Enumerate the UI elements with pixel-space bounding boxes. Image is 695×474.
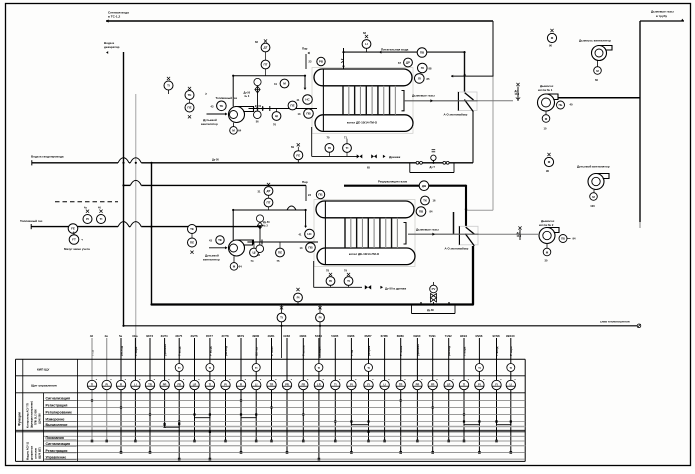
svg-text:Дымовые газы: Дымовые газы (412, 94, 435, 98)
svg-text:А-О экономайзер: А-О экономайзер (444, 113, 468, 117)
svg-text:ТI: ТI (347, 279, 350, 283)
svg-text:ТК: ТК (423, 199, 427, 203)
svg-text:Управление: Управление (46, 456, 67, 460)
svg-text:ПI: ПI (329, 279, 332, 283)
svg-text:ТЕ: ТЕ (219, 104, 223, 108)
svg-text:15-0: 15-0 (517, 236, 522, 238)
svg-text:32/73: 32/73 (146, 334, 153, 338)
svg-text:Контроллер АСУ ТП: Контроллер АСУ ТП (27, 403, 30, 428)
svg-text:ПБ: ПБ (559, 103, 563, 107)
svg-text:котел ДЕ-10/14-ГМ-О: котел ДЕ-10/14-ГМ-О (347, 121, 378, 125)
svg-text:ТЕ: ТЕ (188, 93, 192, 97)
svg-text:ДР: ДР (406, 61, 410, 65)
svg-text:Щит управления: Щит управления (31, 384, 57, 388)
svg-text:FI: FI (495, 382, 498, 386)
svg-text:FT: FT (72, 238, 76, 242)
svg-text:ТI: ТI (334, 382, 337, 386)
svg-text:Ду-50 в дренаж: Ду-50 в дренаж (385, 286, 406, 290)
svg-text:котла № 1: котла № 1 (538, 88, 553, 92)
svg-text:FI: FI (120, 382, 123, 386)
svg-text:ТI: ТI (178, 366, 181, 370)
svg-text:90: 90 (549, 44, 552, 48)
svg-text:Регистрация: Регистрация (46, 403, 68, 407)
svg-text:PI: PI (478, 382, 481, 386)
svg-text:Рециркуляция газов: Рециркуляция газов (378, 180, 407, 184)
svg-text:Регулирование: Регулирование (46, 410, 73, 414)
svg-text:КИП ЩУ: КИП ЩУ (37, 368, 49, 372)
svg-text:PR: PR (163, 382, 167, 386)
svg-text:вентилятор: вентилятор (201, 122, 218, 126)
svg-text:PI: PI (86, 217, 89, 221)
svg-text:ТI: ТI (209, 382, 212, 386)
svg-text:71/92: 71/92 (445, 334, 452, 338)
svg-text:90: 90 (546, 169, 549, 173)
svg-text:LI: LI (383, 382, 386, 386)
svg-text:PR: PR (416, 382, 420, 386)
svg-text:котла № 2: котла № 2 (539, 223, 554, 227)
svg-text:ТI: ТI (255, 366, 258, 370)
svg-text:LI: LI (365, 42, 368, 46)
svg-text:Мазут мимо учета: Мазут мимо учета (64, 247, 90, 251)
svg-text:Дутьевой вентилятор: Дутьевой вентилятор (577, 165, 610, 169)
svg-text:ПТ: ПТ (264, 63, 268, 67)
svg-text:FR: FR (302, 382, 306, 386)
svg-text:TI: TI (280, 316, 283, 320)
svg-text:ПI: ПI (421, 66, 424, 70)
svg-text:LR: LR (193, 382, 197, 386)
svg-text:Ду-50: Ду-50 (263, 221, 270, 224)
svg-text:ТЕ: ТЕ (218, 238, 222, 242)
svg-text:LI: LI (134, 382, 137, 386)
svg-text:в трубу: в трубу (656, 14, 667, 18)
svg-text:33/74: 33/74 (161, 334, 168, 338)
svg-text:Показания: Показания (46, 436, 64, 440)
svg-text:64: 64 (238, 129, 242, 133)
svg-text:99/100: 99/100 (506, 334, 515, 338)
svg-text:PI: PI (297, 296, 300, 300)
svg-text:Вычисление: Вычисление (46, 423, 68, 427)
svg-text:Модуль АСУ-11: Модуль АСУ-11 (27, 441, 30, 460)
svg-text:ТI: ТI (463, 382, 466, 386)
svg-text:№ 3: № 3 (245, 95, 250, 98)
svg-text:37/78: 37/78 (222, 334, 229, 338)
svg-text:39/80: 39/80 (252, 334, 259, 338)
svg-text:ЩУК-300: ЩУК-300 (39, 413, 42, 424)
svg-text:43/83: 43/83 (299, 334, 306, 338)
svg-text:66/87: 66/87 (365, 334, 372, 338)
svg-text:100: 100 (590, 204, 595, 208)
svg-text:68/89: 68/89 (397, 334, 404, 338)
svg-text:ПЕ: ПЕ (190, 241, 194, 245)
svg-text:5а: 5а (119, 334, 123, 338)
svg-text:ПВ: ПВ (561, 237, 565, 241)
svg-text:33/76: 33/76 (191, 334, 198, 338)
svg-text:ТI: ТI (478, 366, 481, 370)
svg-text:95/96: 95/96 (475, 334, 482, 338)
svg-text:ТR: ТR (148, 382, 152, 386)
svg-text:4б: 4б (90, 334, 94, 338)
svg-text:ЦI: ЦI (275, 114, 278, 118)
svg-text:Регистрация: Регистрация (46, 449, 68, 453)
svg-text:ДТ: ДТ (267, 189, 271, 193)
svg-text:ТI: ТI (510, 366, 513, 370)
svg-text:ДТ: ДТ (264, 46, 268, 50)
svg-text:деаэратор: деаэратор (104, 45, 120, 49)
svg-text:35/77: 35/77 (206, 334, 213, 338)
svg-text:FR: FR (177, 382, 181, 386)
svg-text:ПЕ: ПЕ (278, 251, 282, 255)
svg-text:ТI: ТI (318, 366, 321, 370)
svg-text:ПЕ: ПЕ (290, 104, 294, 108)
svg-text:69/90: 69/90 (413, 334, 420, 338)
svg-text:Дымосос вентилятор: Дымосос вентилятор (579, 39, 611, 43)
svg-text:ЦI: ЦI (252, 251, 255, 255)
svg-text:PV: PV (432, 287, 436, 291)
svg-text:котел ДЕ-10/14-ГМ-О: котел ДЕ-10/14-ГМ-О (349, 252, 380, 256)
svg-text:PI: PI (350, 382, 353, 386)
svg-text:ПЕ: ПЕ (187, 106, 191, 110)
svg-text:4в: 4в (105, 334, 109, 338)
svg-text:Дренаж: Дренаж (389, 155, 401, 159)
svg-text:34/75: 34/75 (175, 334, 182, 338)
svg-text:Сигнализация: Сигнализация (46, 442, 71, 446)
svg-text:PI: PI (105, 382, 108, 386)
svg-text:LI: LI (510, 382, 513, 386)
svg-text:FR: FR (431, 382, 435, 386)
svg-text:38/79: 38/79 (237, 334, 244, 338)
svg-text:Ду-80: Ду-80 (427, 309, 434, 312)
svg-text:63/86: 63/86 (347, 334, 354, 338)
svg-text:LR: LR (447, 382, 451, 386)
svg-text:№ 3: № 3 (263, 225, 268, 228)
svg-text:FE: FE (71, 227, 75, 231)
svg-text:А-О экономайзер: А-О экономайзер (445, 247, 469, 251)
svg-text:FI: FI (367, 382, 370, 386)
svg-text:ТI: ТI (167, 84, 170, 88)
svg-text:Топливный газ: Топливный газ (20, 219, 43, 223)
svg-text:TI: TI (100, 217, 103, 221)
svg-text:(функции измерения): (функции измерения) (31, 401, 34, 428)
svg-text:ТI: ТI (209, 366, 212, 370)
svg-text:ТI: ТI (367, 366, 370, 370)
svg-text:ПЛК SLC-500: ПЛК SLC-500 (35, 409, 38, 425)
svg-text:Ду-Т: Ду-Т (430, 166, 436, 169)
svg-text:67/88: 67/88 (381, 334, 388, 338)
svg-text:ТR: ТR (270, 382, 274, 386)
svg-text:сигналов: сигналов (35, 447, 38, 459)
svg-text:Сигнализация: Сигнализация (46, 396, 71, 400)
svg-text:ЛI: ЛI (418, 77, 421, 81)
svg-text:54/85: 54/85 (331, 334, 338, 338)
svg-text:Топливный газ: Топливный газ (216, 96, 238, 100)
svg-text:64: 64 (239, 265, 243, 269)
svg-text:94: 94 (573, 237, 576, 241)
svg-text:ПI: ПI (328, 146, 331, 150)
svg-text:Питательная вода: Питательная вода (381, 48, 409, 52)
svg-text:70/91: 70/91 (429, 334, 436, 338)
svg-text:Пар: Пар (302, 47, 308, 51)
svg-text:в ТС-1,2: в ТС-1,2 (108, 15, 120, 19)
svg-text:LR: LR (317, 382, 321, 386)
svg-text:FI: FI (240, 382, 243, 386)
svg-text:Дымовые газы: Дымовые газы (416, 228, 439, 232)
svg-text:PI: PI (224, 382, 227, 386)
svg-text:Вода из водопровода: Вода из водопровода (31, 155, 64, 159)
svg-text:93/94: 93/94 (460, 334, 467, 338)
svg-text:Измерение: Измерение (46, 417, 65, 421)
svg-text:15-0: 15-0 (515, 94, 520, 96)
svg-text:(ЩУК ЩТ): (ЩУК ЩТ) (39, 447, 42, 459)
svg-text:52/84: 52/84 (315, 334, 322, 338)
svg-text:ТR: ТR (399, 382, 403, 386)
svg-text:LI: LI (255, 382, 258, 386)
svg-text:Ду-50: Ду-50 (212, 159, 219, 162)
svg-text:ПТ: ПТ (267, 201, 271, 205)
svg-text:40: 40 (570, 103, 573, 107)
svg-text:41/82: 41/82 (283, 334, 290, 338)
svg-text:Ду-50: Ду-50 (255, 106, 262, 108)
svg-text:вентилятор: вентилятор (203, 258, 220, 262)
svg-text:97/98: 97/98 (493, 334, 500, 338)
svg-text:PI: PI (319, 316, 322, 320)
svg-text:Пар: Пар (302, 180, 308, 184)
svg-text:дискретных: дискретных (31, 445, 34, 460)
svg-text:ТЕ: ТЕ (190, 227, 194, 231)
svg-text:Функции: Функции (18, 412, 22, 426)
svg-text:FE: FE (296, 153, 300, 157)
svg-text:31/а: 31/а (132, 334, 138, 338)
svg-text:ТI: ТI (91, 382, 94, 386)
svg-text:60: 60 (595, 78, 598, 82)
svg-text:ТI: ТI (346, 146, 349, 150)
svg-text:слив теплоносителя: слив теплоносителя (600, 320, 630, 324)
svg-text:PR: PR (285, 382, 289, 386)
svg-text:40/81: 40/81 (268, 334, 275, 338)
svg-text:Дымовые газы: Дымовые газы (651, 10, 674, 14)
svg-text:>: > (205, 92, 207, 96)
